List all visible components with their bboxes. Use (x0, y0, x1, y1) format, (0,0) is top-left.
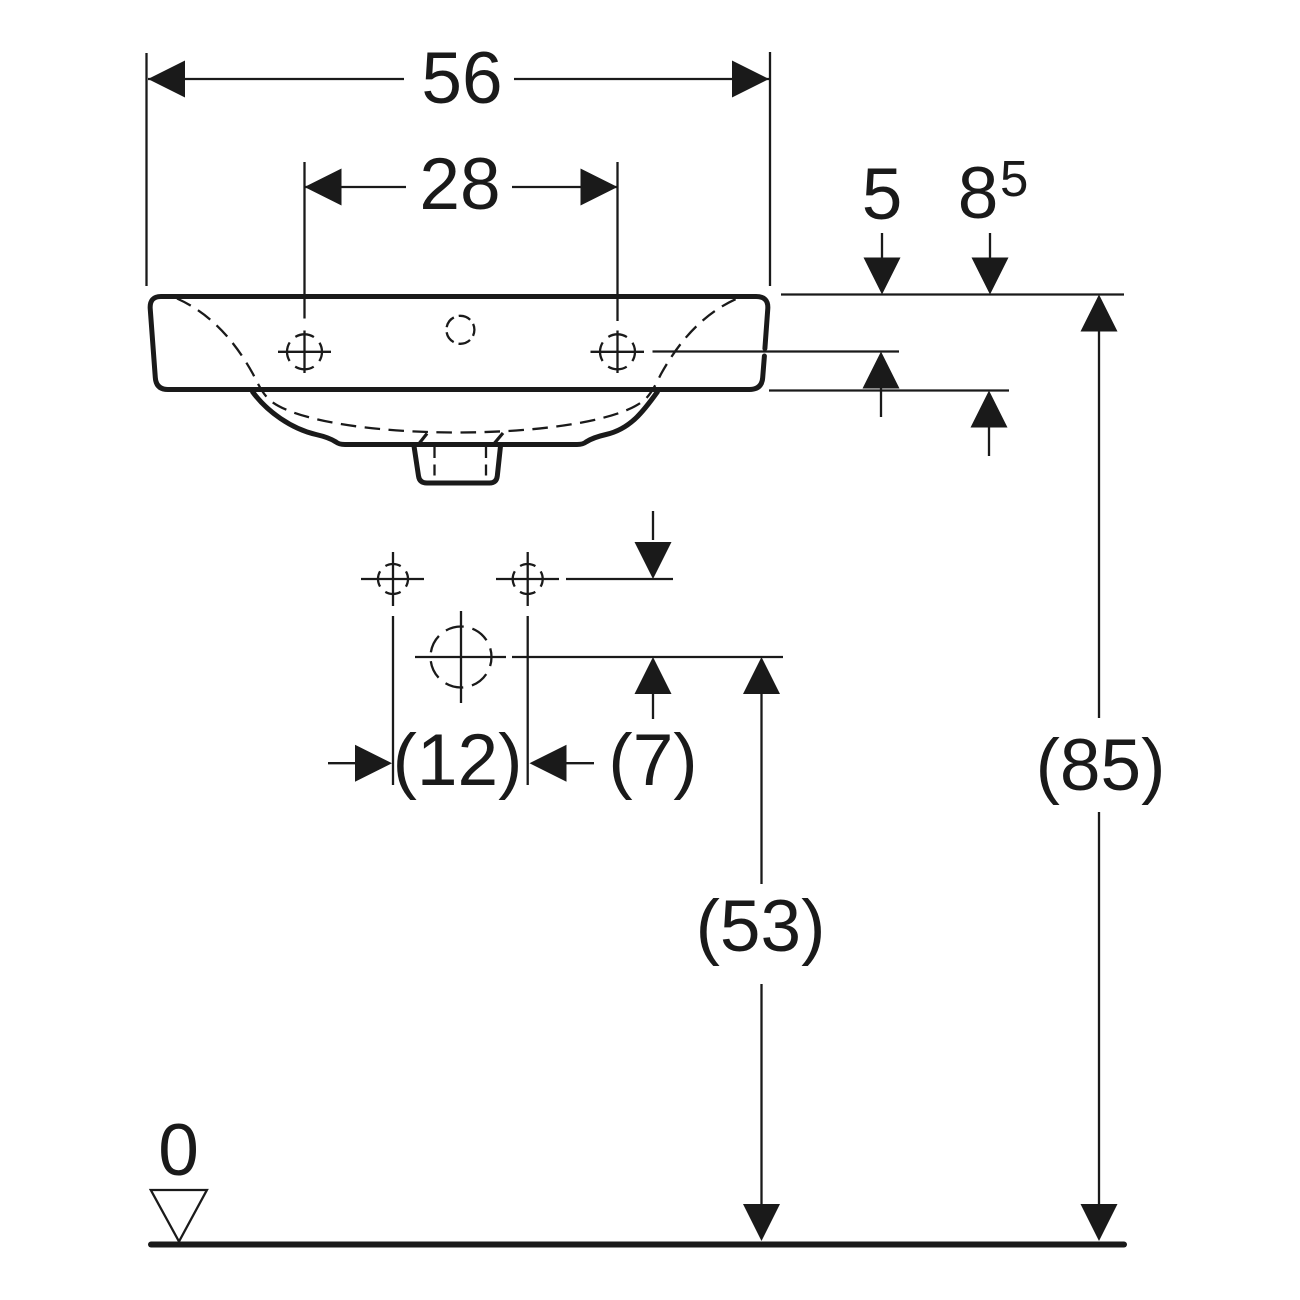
waste hole dashed circle (431, 627, 492, 688)
dimension 28 extension line left (303, 162, 305, 319)
dimension 5 lower arrow tail (880, 388, 882, 417)
tap hole left crosshair vertical (303, 331, 305, 374)
dimension 53 line upper segment (760, 694, 762, 884)
svg-text:28: 28 (419, 144, 500, 225)
fixing hole right crosshair vertical (527, 552, 529, 606)
bowl front bottom curve (252, 391, 658, 445)
svg-text:(7): (7) (608, 720, 697, 801)
tap hole right crosshair horizontal (591, 351, 645, 353)
reference line apron bottom extended (769, 389, 1009, 391)
svg-text:5: 5 (1000, 150, 1028, 207)
svg-text:5: 5 (862, 154, 903, 235)
dimension 5 upper arrow (864, 258, 901, 295)
dimension 8.5 upper arrow tail (989, 233, 991, 259)
tap hole left crosshair horizontal (278, 351, 331, 353)
dimension 7 lower arrow (635, 657, 672, 694)
dimension 53 upper arrow (743, 657, 780, 694)
dimension 28 extension line right (616, 162, 618, 321)
svg-text:56: 56 (421, 38, 502, 119)
dimension 28 line left segment (305, 186, 407, 188)
waste hole crosshair horizontal (415, 656, 506, 658)
basin inner rim dashed curve (177, 299, 737, 433)
dimension 12 left arrow tail (328, 762, 356, 764)
dimension 7 upper arrow (635, 542, 672, 579)
dimension 56 extension line right (769, 52, 771, 286)
fixing hole left crosshair horizontal (361, 578, 424, 580)
dimension 28 arrow left (305, 169, 342, 206)
fixing hole left circle (378, 564, 408, 594)
dimension 8.5 upper arrow (972, 258, 1009, 295)
dimension 85 lower arrow (1081, 1204, 1118, 1241)
fixing hole axis line right (566, 578, 673, 580)
dimension 53 lower arrow (743, 1204, 780, 1241)
drain fitting dashed line left (433, 447, 435, 482)
fixing hole left crosshair vertical (392, 552, 394, 606)
dimension 8.5 lower arrow (971, 391, 1008, 428)
svg-text:0: 0 (158, 1110, 199, 1191)
dimension 56 arrow left (148, 61, 185, 98)
reference line top edge extended (781, 293, 1124, 295)
drain recess edge left (419, 434, 428, 445)
dimension 28 arrow right (581, 169, 618, 206)
dimension 5 lower arrow (863, 352, 900, 389)
svg-text:(85): (85) (1036, 725, 1166, 806)
fixing hole right extension line (527, 616, 529, 785)
tap hole right circle (600, 334, 635, 369)
dimension 12 right arrow tail (566, 762, 594, 764)
dimension 56 extension line left (145, 53, 147, 286)
dimension 56 line left segment (148, 78, 404, 80)
washbasin outline (150, 297, 768, 390)
dimension 53 line lower segment (760, 984, 762, 1205)
fixing hole right crosshair horizontal (496, 578, 559, 580)
dimension 85 line lower segment (1098, 812, 1100, 1205)
dimension 7 lower arrow tail (652, 694, 654, 719)
dimension 5 upper arrow tail (881, 233, 883, 259)
reference line tap hole axis extended (653, 350, 900, 352)
tap hole right crosshair vertical (616, 331, 618, 374)
svg-text:(53): (53) (696, 886, 826, 967)
dimension 12 right arrow (530, 745, 567, 782)
fixing hole left extension line (392, 616, 394, 785)
dimension 8.5 lower arrow tail (988, 427, 990, 456)
drain fitting outline (414, 446, 501, 483)
waste hole crosshair vertical (460, 611, 462, 703)
dimension 56 arrow right (732, 61, 769, 98)
dimension 85 upper arrow (1081, 295, 1118, 332)
tap hole left circle (287, 334, 322, 369)
drain recess edge right (494, 433, 504, 444)
dimension 56 line right segment (514, 78, 769, 80)
centre fixing hole dashed circle (446, 316, 474, 344)
datum triangle (151, 1190, 207, 1242)
waste axis line right (512, 656, 783, 658)
dimension 28 line right segment (512, 186, 618, 188)
svg-text:8: 8 (958, 153, 999, 234)
dimension 12 left arrow (355, 745, 392, 782)
dimension 85 line upper segment (1098, 331, 1100, 718)
svg-text:(12): (12) (393, 720, 523, 801)
fixing hole right circle (513, 564, 543, 594)
dimension 7 upper arrow tail (652, 511, 654, 540)
floor line (151, 1242, 1124, 1248)
drain fitting dashed line right (485, 447, 487, 482)
